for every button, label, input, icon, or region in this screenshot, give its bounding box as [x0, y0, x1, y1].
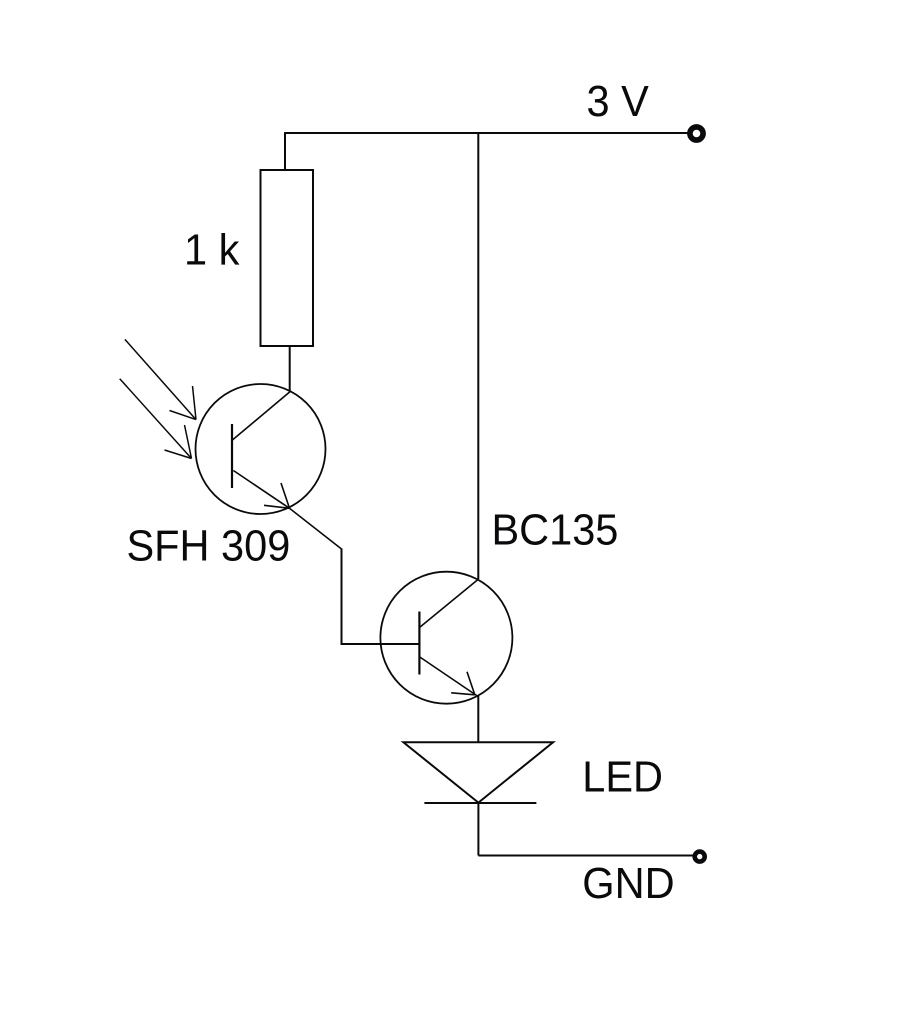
wire: bottom rail to GND terminal [478, 855, 693, 857]
Q1 emitter arrowhead [264, 483, 290, 508]
svg-text:3 V: 3 V [587, 78, 649, 126]
Q1 collector lead [232, 391, 290, 440]
transistor Q2 body circle [380, 572, 512, 704]
phototransistor Q1 body circle [196, 384, 326, 514]
terminal: 3 V supply [690, 127, 703, 140]
svg-text:1 k: 1 k [184, 227, 240, 275]
wire: LED cathode down [477, 803, 479, 856]
wire: R1 bottom to Q1 collector [289, 345, 291, 392]
LED anode triangle [403, 742, 553, 802]
terminal: GND [695, 852, 705, 862]
light arrow 1 [125, 339, 196, 419]
wire: Q2 emitter down to LED anode [477, 695, 479, 742]
Q1 emitter lead [233, 471, 341, 550]
Q2 emitter lead [420, 657, 478, 697]
wire: rail down to Q2 collector [477, 133, 479, 579]
svg-text:LED: LED [582, 754, 663, 802]
svg-text:GND: GND [582, 860, 674, 908]
Q2 collector lead [420, 579, 479, 627]
wire: Q1 emitter to Q2 base [342, 549, 420, 645]
Q2 base bar [418, 612, 420, 675]
wire: +3V top rail [285, 132, 688, 134]
wire: rail corner down to resistor R1 top [284, 132, 286, 170]
light arrow 2 [120, 379, 192, 459]
svg-text:BC135: BC135 [492, 507, 619, 555]
resistor R1 [261, 170, 314, 346]
Q1 base bar [231, 424, 233, 488]
LED cathode bar [424, 802, 536, 804]
Q2 emitter arrowhead [451, 672, 475, 695]
svg-text:SFH 309: SFH 309 [127, 523, 291, 571]
